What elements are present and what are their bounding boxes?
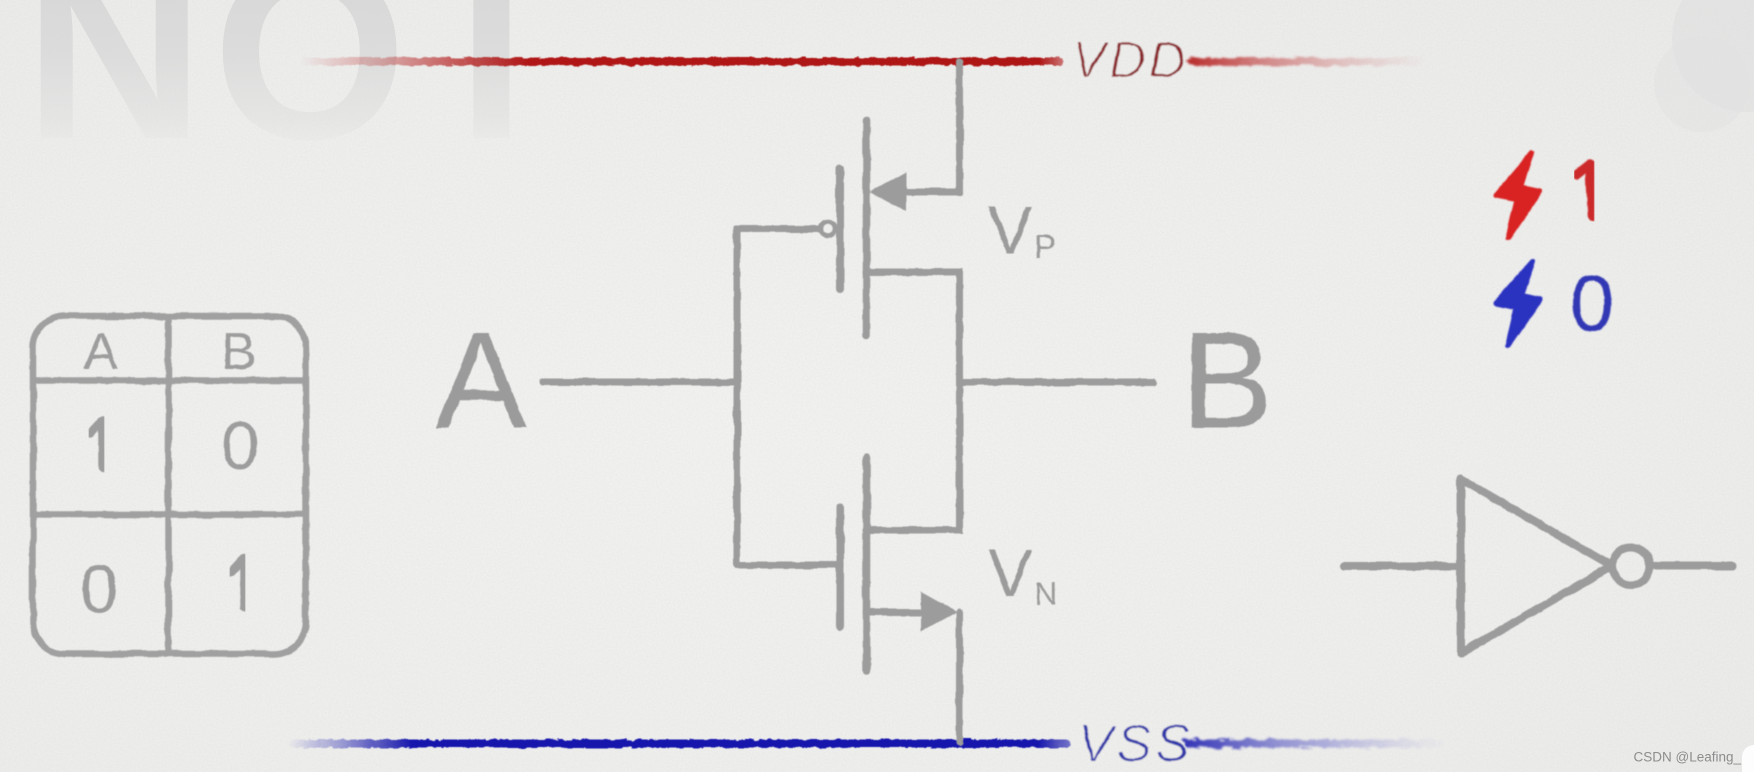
svg-text:P: P — [1034, 228, 1056, 265]
svg-text:B: B — [1181, 304, 1273, 458]
row2 B value 1 — [231, 558, 244, 608]
wire Q2 source to VSS — [867, 609, 921, 616]
Q1 source arrow — [870, 172, 906, 212]
Q2 channel bar — [863, 458, 871, 671]
transistor Q2 (NMOS) — [840, 458, 957, 671]
svg-text:NOT: NOT — [24, 0, 576, 191]
blue lightning bolt — [1496, 261, 1540, 346]
wire NMOS gate lead — [737, 562, 840, 569]
svg-text:V: V — [988, 193, 1033, 268]
middle row divider — [33, 511, 306, 518]
svg-text:B: B — [222, 323, 257, 381]
VDD rail — [300, 58, 1063, 66]
inverter input wire — [1343, 562, 1461, 570]
Q1 gate bar — [836, 169, 844, 289]
wire A input — [543, 379, 737, 386]
wire VDD to Q1 source — [897, 62, 960, 192]
svg-text:0: 0 — [1570, 258, 1614, 347]
CSDN watermark — [1742, 745, 1754, 772]
corner logo watermark top-right — [1654, 0, 1754, 132]
svg-text:V: V — [988, 536, 1033, 611]
Q1 gate bubble — [821, 222, 835, 236]
red digit 1 — [1576, 164, 1593, 216]
Q2 source arrow — [921, 592, 957, 632]
column divider — [165, 316, 172, 654]
svg-text:N: N — [1034, 575, 1058, 612]
VSS rail — [288, 740, 1070, 748]
inverter output wire — [1651, 562, 1732, 570]
wire gate bus — [734, 229, 741, 565]
transistor Q1 (PMOS) — [821, 120, 907, 336]
inverter gate symbol — [1343, 479, 1732, 653]
label VP — [988, 193, 1056, 268]
inverter triangle — [1461, 479, 1612, 653]
row1 A value 1 — [90, 420, 103, 468]
wire output node — [867, 272, 960, 530]
svg-text:0: 0 — [80, 551, 118, 627]
svg-text:CSDN @Leafing_: CSDN @Leafing_ — [1633, 750, 1741, 765]
inverter bubble — [1612, 547, 1650, 585]
svg-text:VSS: VSS — [1078, 715, 1194, 772]
svg-text:VDD: VDD — [1072, 31, 1189, 88]
header row divider — [33, 377, 306, 384]
wire B output — [960, 379, 1154, 386]
truth table — [33, 316, 306, 654]
Q2 gate bar — [836, 507, 844, 626]
svg-text:A: A — [435, 304, 527, 458]
red lightning bolt — [1496, 153, 1540, 238]
Q1 channel bar — [863, 120, 871, 336]
label VN — [988, 536, 1058, 612]
svg-text:0: 0 — [221, 408, 259, 484]
wire PMOS gate lead — [737, 226, 818, 233]
svg-text:A: A — [84, 323, 119, 381]
table frame — [33, 316, 306, 654]
